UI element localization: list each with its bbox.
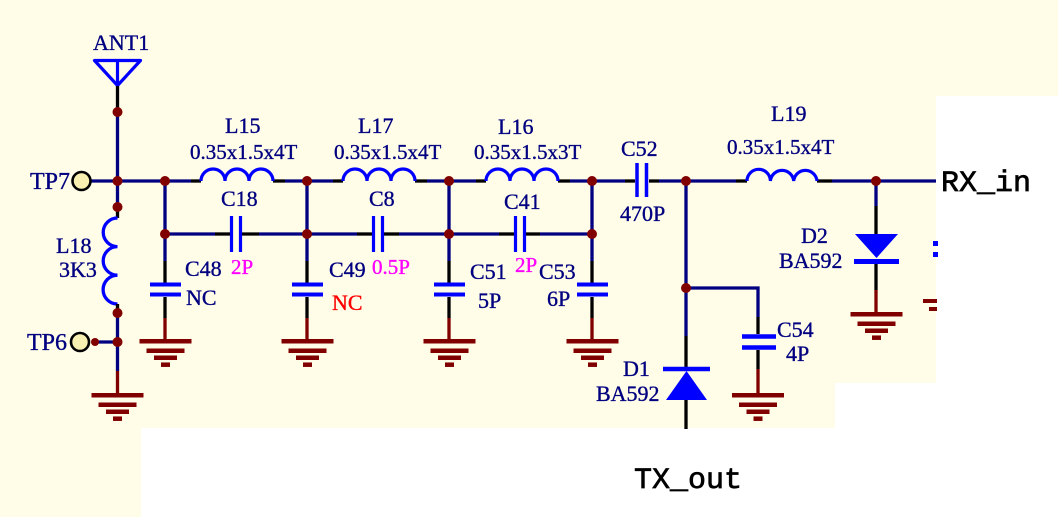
svg-text:C54: C54 (777, 317, 814, 342)
svg-text:6P: 6P (547, 286, 570, 311)
svg-text:C18: C18 (221, 186, 258, 211)
svg-text:D1: D1 (623, 356, 650, 381)
svg-text:2P: 2P (515, 253, 537, 277)
svg-text:NC: NC (186, 285, 217, 310)
svg-text:TX_out: TX_out (634, 464, 742, 498)
svg-text:L15: L15 (225, 113, 260, 138)
svg-text:C52: C52 (621, 136, 658, 161)
svg-text:0.35x1.5x4T: 0.35x1.5x4T (334, 140, 442, 164)
svg-text:L16: L16 (498, 114, 533, 139)
svg-text:BA592: BA592 (596, 381, 660, 406)
svg-text:C51: C51 (470, 259, 507, 284)
svg-text:C53: C53 (539, 259, 576, 284)
svg-text:ANT1: ANT1 (93, 30, 149, 55)
svg-text:0.35x1.5x3T: 0.35x1.5x3T (474, 140, 582, 164)
svg-text:C41: C41 (504, 189, 541, 214)
svg-text:L18: L18 (56, 233, 91, 258)
svg-text:4P: 4P (786, 341, 809, 366)
svg-text:0.5P: 0.5P (372, 255, 410, 279)
svg-text:NC: NC (332, 290, 363, 315)
svg-text:TP6: TP6 (27, 330, 67, 356)
svg-text:5P: 5P (478, 288, 501, 313)
svg-text:3K3: 3K3 (59, 257, 97, 282)
svg-text:C8: C8 (369, 186, 395, 211)
svg-text:2P: 2P (231, 255, 253, 279)
svg-text:C49: C49 (329, 257, 366, 282)
svg-text:D2: D2 (801, 223, 828, 248)
svg-text:BA592: BA592 (779, 248, 843, 273)
svg-text:470P: 470P (620, 201, 665, 226)
svg-text:TP7: TP7 (30, 169, 70, 195)
svg-text:RX_in: RX_in (941, 167, 1031, 201)
svg-text:C48: C48 (185, 256, 222, 281)
svg-text:0.35x1.5x4T: 0.35x1.5x4T (727, 135, 835, 159)
svg-text:L17: L17 (358, 113, 393, 138)
svg-text:0.35x1.5x4T: 0.35x1.5x4T (190, 140, 298, 164)
svg-text:L19: L19 (771, 101, 806, 126)
